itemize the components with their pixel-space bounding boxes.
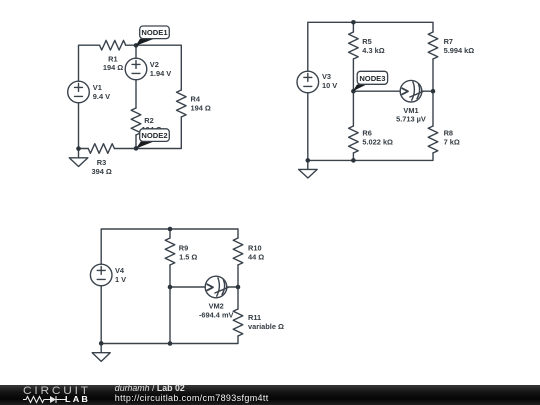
svg-text:R11: R11 — [248, 313, 261, 322]
svg-text:R2: R2 — [144, 116, 153, 125]
svg-text:R9: R9 — [179, 243, 188, 252]
svg-text:V2: V2 — [150, 60, 159, 69]
svg-text:V1: V1 — [93, 83, 102, 92]
svg-text:V4: V4 — [115, 266, 125, 275]
svg-text:R8: R8 — [444, 129, 453, 138]
svg-text:9.4 V: 9.4 V — [93, 92, 110, 101]
svg-text:R3: R3 — [97, 158, 106, 167]
svg-text:NODE2: NODE2 — [141, 131, 167, 140]
svg-text:VM2: VM2 — [209, 301, 224, 310]
svg-text:R4: R4 — [191, 94, 201, 103]
svg-text:5.713 µV: 5.713 µV — [396, 115, 426, 124]
svg-text:NODE1: NODE1 — [141, 28, 168, 37]
svg-text:194 Ω: 194 Ω — [103, 63, 123, 72]
svg-text:4.3 kΩ: 4.3 kΩ — [362, 46, 384, 55]
svg-text:44 Ω: 44 Ω — [248, 252, 264, 261]
svg-text:394 Ω: 394 Ω — [92, 167, 112, 176]
svg-text:1.94 V: 1.94 V — [150, 69, 171, 78]
svg-text:194 Ω: 194 Ω — [191, 103, 211, 112]
svg-text:5.022 kΩ: 5.022 kΩ — [362, 138, 393, 147]
svg-text:V3: V3 — [322, 72, 331, 81]
svg-text:7 kΩ: 7 kΩ — [444, 138, 460, 147]
svg-text:R7: R7 — [444, 37, 453, 46]
svg-text:1 V: 1 V — [115, 275, 126, 284]
svg-text:R10: R10 — [248, 243, 262, 252]
svg-text:10 V: 10 V — [322, 81, 337, 90]
svg-text:R6: R6 — [362, 129, 371, 138]
svg-text:-694.4 mV: -694.4 mV — [199, 311, 234, 320]
svg-text:1.5 Ω: 1.5 Ω — [179, 252, 197, 261]
svg-text:5.994 kΩ: 5.994 kΩ — [444, 46, 475, 55]
svg-text:NODE3: NODE3 — [359, 74, 385, 83]
svg-text:variable Ω: variable Ω — [248, 322, 284, 331]
svg-text:R5: R5 — [362, 37, 371, 46]
svg-text:R1: R1 — [108, 54, 117, 63]
